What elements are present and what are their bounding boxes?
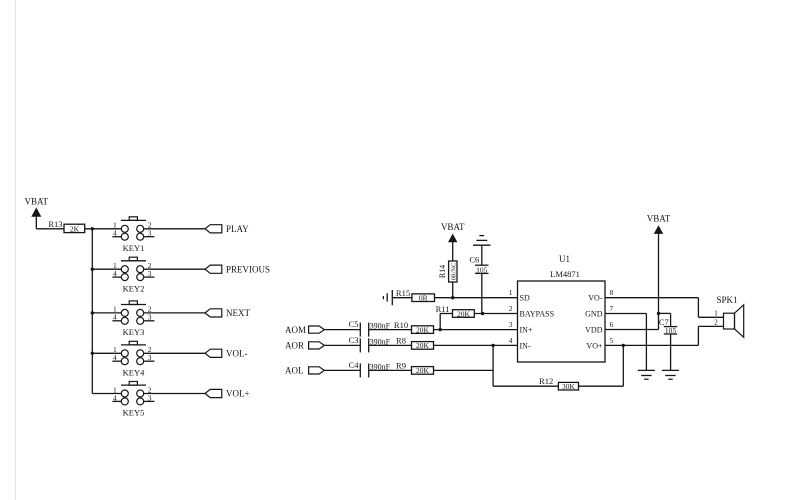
svg-text:2: 2 (714, 317, 718, 326)
push button KEY5 (112, 382, 154, 418)
capacitor C3 (349, 335, 391, 353)
svg-text:R15: R15 (396, 288, 410, 298)
wire (434, 329, 518, 331)
wire (439, 314, 441, 330)
capacitor C5 (349, 319, 391, 337)
node IN- / R12 (491, 344, 494, 347)
op-amp U1 LM4871 (509, 254, 614, 362)
resistor R14 (438, 261, 457, 282)
push button KEY2 (112, 257, 154, 293)
port PREVIOUS (205, 264, 270, 274)
power VBAT (right) (647, 214, 671, 330)
svg-text:4: 4 (113, 269, 117, 278)
svg-text:4: 4 (113, 313, 117, 322)
svg-text:R8: R8 (396, 336, 406, 346)
svg-text:2K: 2K (70, 224, 80, 233)
svg-text:4: 4 (113, 393, 117, 402)
wire (369, 329, 412, 331)
wire (670, 334, 672, 370)
node IN+ / R11 (439, 328, 442, 331)
svg-text:4: 4 (113, 229, 117, 238)
wire (324, 369, 360, 371)
svg-text:1: 1 (509, 288, 513, 297)
wire (622, 345, 624, 386)
port VOL- (205, 349, 248, 359)
svg-text:1: 1 (714, 308, 718, 317)
wire (92, 268, 121, 270)
wire (369, 369, 412, 371)
svg-text:GND: GND (585, 310, 603, 319)
wire (697, 298, 699, 318)
wire (435, 297, 518, 299)
wire VO+ (pin5) (605, 344, 698, 346)
svg-text:3: 3 (148, 393, 152, 402)
svg-text:R11: R11 (436, 304, 450, 314)
svg-text:6: 6 (610, 320, 614, 329)
wire (670, 313, 672, 326)
power VBAT (middle) (441, 222, 465, 261)
svg-text:R10: R10 (394, 320, 408, 330)
wire (92, 312, 121, 314)
push button KEY4 (112, 341, 154, 377)
wire (92, 352, 121, 354)
resistor R12 (539, 376, 578, 391)
svg-text:105: 105 (476, 266, 488, 275)
svg-text:C5: C5 (349, 319, 359, 329)
svg-text:SD: SD (520, 294, 530, 303)
svg-text:20K: 20K (416, 341, 430, 350)
node bus-KEY3 (91, 311, 94, 314)
svg-text:0R/NC: 0R/NC (450, 263, 457, 281)
wire (144, 352, 205, 354)
ground (R15) (383, 290, 392, 305)
svg-text:3: 3 (148, 353, 152, 362)
svg-text:VBAT: VBAT (441, 222, 465, 232)
wire (434, 344, 518, 346)
svg-text:4: 4 (509, 336, 513, 345)
svg-text:0R: 0R (419, 294, 428, 303)
wire (144, 268, 205, 270)
wire (579, 385, 624, 387)
resistor R15 (396, 288, 435, 302)
wire key bus (91, 229, 93, 394)
svg-text:VOL+: VOL+ (226, 389, 250, 399)
wire (324, 344, 360, 346)
wire (324, 329, 360, 331)
power VBAT (left) (25, 197, 49, 229)
svg-text:20K: 20K (416, 325, 430, 334)
ground (pin7 net) (638, 370, 655, 379)
capacitor C7 (659, 317, 677, 335)
svg-text:VOL-: VOL- (226, 349, 248, 359)
resistor R8 (396, 336, 433, 351)
wire (481, 273, 483, 313)
resistor R13 (48, 219, 84, 234)
push button KEY3 (112, 301, 154, 337)
ground (C7) (662, 370, 679, 379)
resistor R9 (396, 361, 433, 376)
wire (474, 313, 517, 315)
svg-text:3: 3 (148, 313, 152, 322)
wire (392, 297, 412, 299)
node BYPASS / C6 (481, 312, 484, 315)
wire (698, 316, 723, 318)
wire (659, 312, 671, 314)
svg-text:IN+: IN+ (520, 326, 533, 335)
svg-text:AOL: AOL (285, 366, 304, 376)
svg-text:AOR: AOR (285, 341, 304, 351)
wire (92, 393, 121, 395)
svg-text:C3: C3 (349, 335, 359, 345)
svg-text:4: 4 (113, 353, 117, 362)
resistor R10 (394, 320, 434, 335)
port VOL+ (205, 389, 250, 399)
wire (144, 312, 205, 314)
speaker SPK1 (714, 295, 744, 338)
svg-text:105: 105 (665, 326, 677, 335)
svg-text:KEY4: KEY4 (123, 368, 145, 378)
node VBAT / C7 (657, 312, 660, 315)
node bus-KEY1 (91, 227, 94, 230)
svg-text:VO+: VO+ (586, 341, 603, 350)
svg-text:3: 3 (148, 269, 152, 278)
svg-text:IN-: IN- (520, 341, 531, 350)
svg-text:SPK1: SPK1 (716, 295, 737, 305)
svg-text:8: 8 (610, 288, 614, 297)
svg-text:VBAT: VBAT (25, 197, 49, 207)
svg-text:U1: U1 (559, 254, 570, 264)
svg-text:KEY5: KEY5 (123, 408, 145, 418)
wire (440, 313, 452, 315)
svg-text:2: 2 (509, 304, 513, 313)
wire (452, 282, 454, 298)
port NEXT (205, 308, 250, 318)
svg-text:R9: R9 (396, 361, 406, 371)
svg-text:30K: 30K (562, 382, 576, 391)
svg-text:R13: R13 (48, 219, 62, 229)
wire (698, 325, 723, 327)
wire VDD (pin6) (605, 329, 659, 331)
svg-text:LM4871: LM4871 (550, 269, 580, 279)
svg-text:C6: C6 (469, 254, 479, 264)
svg-text:VO-: VO- (588, 294, 603, 303)
wire (697, 326, 699, 345)
svg-text:VBAT: VBAT (647, 214, 671, 224)
svg-text:NEXT: NEXT (226, 308, 250, 318)
wire (144, 393, 205, 395)
wire (645, 314, 647, 371)
wire (493, 385, 558, 387)
capacitor C4 (349, 360, 391, 378)
node bus-KEY4 (91, 352, 94, 355)
node VO+ / R12 (622, 344, 625, 347)
svg-text:5: 5 (610, 336, 614, 345)
port AOM (285, 325, 324, 335)
wire GND (pin7) (605, 313, 646, 315)
svg-text:20K: 20K (416, 366, 430, 375)
wire (36, 228, 64, 230)
port AOR (285, 341, 324, 351)
wire VO- (pin8) (605, 297, 698, 299)
resistor R11 (436, 304, 475, 319)
svg-text:AOM: AOM (285, 325, 306, 335)
push button KEY1 (112, 217, 154, 253)
wire (434, 369, 494, 371)
svg-text:KEY1: KEY1 (123, 243, 145, 253)
port PLAY (205, 224, 249, 234)
wire (15, 0, 17, 500)
svg-text:KEY2: KEY2 (123, 283, 145, 293)
svg-text:3: 3 (148, 229, 152, 238)
wire (492, 345, 494, 386)
wire (369, 344, 412, 346)
svg-text:R14: R14 (438, 265, 447, 278)
svg-text:20K: 20K (457, 309, 471, 318)
wire (481, 245, 483, 265)
svg-text:PLAY: PLAY (226, 224, 249, 234)
node bus-KEY2 (91, 268, 94, 271)
svg-text:7: 7 (610, 304, 614, 313)
wire (85, 228, 122, 230)
svg-text:VDD: VDD (585, 326, 603, 335)
node SD / R14 (451, 296, 454, 299)
svg-text:KEY3: KEY3 (123, 327, 145, 337)
ground (C6 top, inverted) (473, 236, 491, 246)
svg-text:C4: C4 (349, 360, 360, 370)
port AOL (285, 366, 324, 376)
wire (144, 228, 205, 230)
svg-text:3: 3 (509, 320, 513, 329)
svg-text:R12: R12 (539, 376, 553, 386)
svg-text:PREVIOUS: PREVIOUS (226, 264, 270, 274)
capacitor C6 (469, 254, 488, 274)
svg-text:BAYPASS: BAYPASS (520, 310, 555, 319)
